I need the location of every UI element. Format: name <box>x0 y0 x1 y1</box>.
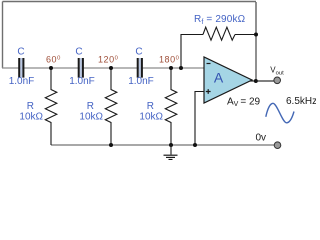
resistor R2 <box>79 68 116 145</box>
ground <box>164 145 178 160</box>
capacitor C3 <box>128 47 154 88</box>
wire signal line <box>2 67 204 69</box>
svg-text:1.0nF: 1.0nF <box>128 76 154 87</box>
node 60deg junction <box>49 66 53 70</box>
wire bottom rail <box>51 144 275 146</box>
terminal 0v <box>256 133 281 149</box>
node 180deg junction <box>169 66 173 70</box>
svg-text:C: C <box>135 47 142 58</box>
svg-text:1.0nF: 1.0nF <box>69 76 95 87</box>
op-amp U1 <box>204 57 261 108</box>
wire top rail <box>3 1 257 3</box>
svg-text:R: R <box>147 101 154 112</box>
svg-text:0v: 0v <box>256 133 267 144</box>
node Rf right junction <box>254 33 258 37</box>
terminal Vout <box>270 66 284 84</box>
svg-text:A: A <box>214 69 224 85</box>
node plus-input ground junction <box>193 143 197 147</box>
svg-text:10kΩ: 10kΩ <box>139 112 163 123</box>
resistor R3 <box>139 68 176 145</box>
wire output <box>250 80 275 82</box>
svg-text:1200: 1200 <box>98 55 118 65</box>
svg-text:1800: 1800 <box>159 55 179 65</box>
wire right rail <box>255 2 257 81</box>
svg-text:1.0nF: 1.0nF <box>9 76 35 87</box>
svg-text:6.5kHz: 6.5kHz <box>286 96 316 107</box>
svg-text:Rf = 290kΩ: Rf = 290kΩ <box>194 14 246 26</box>
node R3 ground junction <box>169 143 173 147</box>
svg-text:R: R <box>27 101 34 112</box>
svg-text:R: R <box>87 101 94 112</box>
node Rf tap junction <box>179 66 183 70</box>
svg-text:C: C <box>17 47 24 58</box>
capacitor C1 <box>9 47 35 88</box>
resistor Rf feedback branch wire <box>181 35 203 69</box>
wire left rail <box>2 2 4 69</box>
svg-text:C: C <box>75 47 82 58</box>
sine wave 6.5kHz <box>266 96 317 123</box>
resistor Rf <box>194 14 246 40</box>
svg-text:10kΩ: 10kΩ <box>19 112 43 123</box>
node 120deg junction <box>109 66 113 70</box>
capacitor C2 <box>69 47 95 88</box>
svg-text:10kΩ: 10kΩ <box>79 112 103 123</box>
node output junction <box>254 79 258 83</box>
node R2 ground junction <box>109 143 113 147</box>
svg-text:AV = 29: AV = 29 <box>227 96 261 108</box>
resistor R1 <box>19 68 56 145</box>
svg-text:600: 600 <box>46 55 61 65</box>
wire non-inverting input <box>195 92 204 146</box>
svg-text:Vout: Vout <box>270 66 284 77</box>
